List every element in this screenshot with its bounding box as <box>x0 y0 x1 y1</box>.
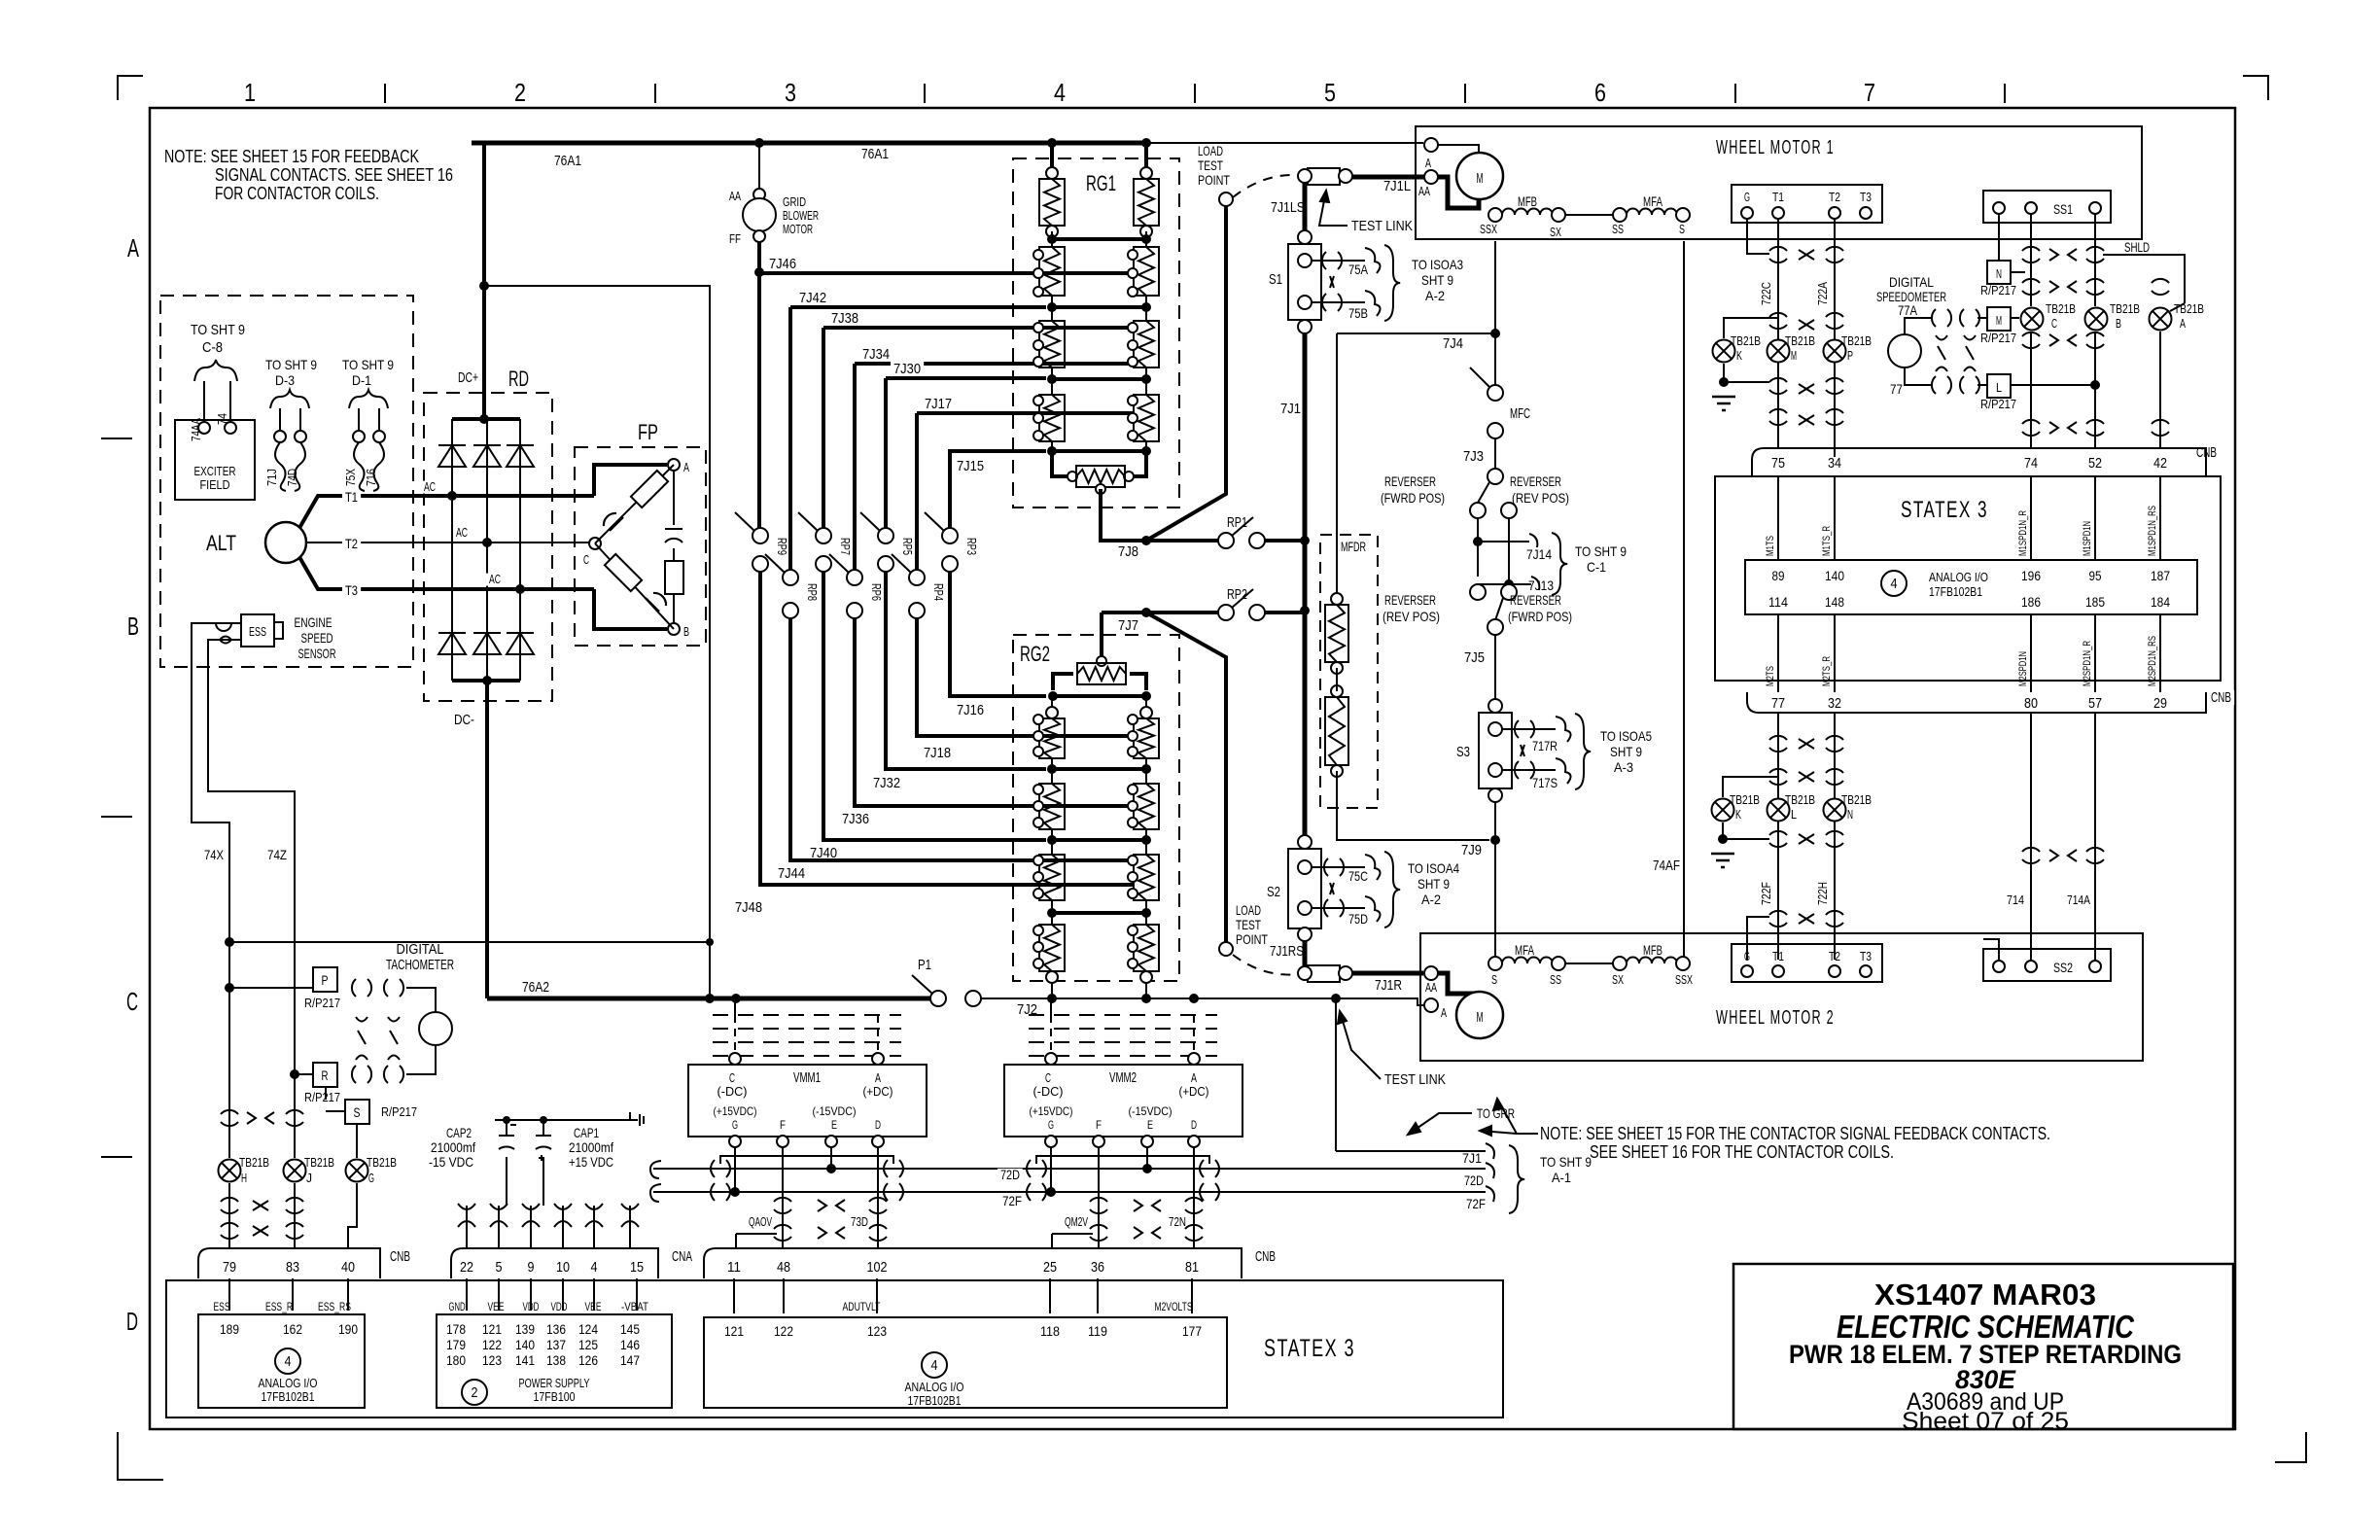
svg-text:A: A <box>2180 316 2186 331</box>
switch RP6 <box>847 570 862 585</box>
svg-text:M: M <box>1477 170 1484 187</box>
WM2 pin AA <box>1424 966 1438 980</box>
svg-text:C-1: C-1 <box>1587 559 1606 575</box>
column TB21B A wire <box>2159 332 2161 448</box>
svg-text:R/P217: R/P217 <box>1980 331 2016 345</box>
WM2 motor M <box>1456 992 1503 1038</box>
wire 7J5 <box>1494 635 1496 699</box>
svg-text:140: 140 <box>515 1337 535 1352</box>
svg-text:7J1: 7J1 <box>1462 1150 1482 1166</box>
svg-text:123: 123 <box>867 1323 887 1339</box>
svg-text:4: 4 <box>1891 576 1898 592</box>
coil MFB wm2 <box>1627 958 1677 963</box>
svg-text:D: D <box>126 1307 138 1336</box>
svg-text:TO SHT 9: TO SHT 9 <box>1540 1154 1592 1170</box>
svg-text:178: 178 <box>446 1321 466 1337</box>
curl 75A <box>1365 248 1381 273</box>
svg-text:75C: 75C <box>1348 868 1368 884</box>
svg-text:C: C <box>729 1070 735 1085</box>
wire AC T1 <box>335 494 594 498</box>
svg-text:52: 52 <box>2088 455 2102 472</box>
svg-text:7J1LS: 7J1LS <box>1271 199 1305 216</box>
svg-text:5: 5 <box>496 1259 503 1276</box>
svg-text:VMM1: VMM1 <box>793 1069 821 1086</box>
svg-text:4: 4 <box>1054 78 1066 107</box>
svg-text:7J4: 7J4 <box>1443 335 1463 352</box>
svg-text:T2: T2 <box>1829 949 1840 963</box>
svg-text:74AF: 74AF <box>1653 857 1680 874</box>
wire 716 <box>378 408 380 431</box>
svg-text:95: 95 <box>2089 568 2102 583</box>
lamp TB21B N wm2 <box>1824 799 1846 822</box>
svg-text:TB21B: TB21B <box>1785 792 1815 807</box>
svg-text:MFB: MFB <box>1643 942 1662 958</box>
WM1 terminal box <box>1732 185 1882 223</box>
svg-text:124: 124 <box>578 1321 598 1337</box>
svg-text:STATEX 3: STATEX 3 <box>1264 1335 1355 1362</box>
diode D5 <box>473 633 501 654</box>
svg-text:CNA: CNA <box>672 1248 692 1265</box>
svg-text:G: G <box>368 1171 374 1185</box>
svg-text:25: 25 <box>1043 1259 1057 1276</box>
svg-text:179: 179 <box>446 1337 466 1352</box>
svg-text:136: 136 <box>546 1321 566 1337</box>
svg-text:17FB102B1: 17FB102B1 <box>1929 584 1982 599</box>
svg-text:7J42: 7J42 <box>799 290 826 306</box>
WM1 motor M <box>1456 153 1503 199</box>
wire crossover to 76A2 <box>225 937 234 947</box>
resistor RG2-5 horizontal <box>1097 656 1106 666</box>
svg-text:A: A <box>1191 1070 1197 1085</box>
svg-text:ESS_R: ESS_R <box>265 1300 293 1313</box>
RG2 bottom pins <box>1046 971 1058 983</box>
svg-text:M: M <box>1791 348 1797 363</box>
WM1 pin A <box>1424 138 1438 152</box>
wire 7J17 <box>917 411 1134 415</box>
svg-text:139: 139 <box>515 1321 535 1337</box>
svg-text:72F: 72F <box>1466 1196 1486 1211</box>
svg-text:7J9: 7J9 <box>1461 842 1482 858</box>
svg-text:T1: T1 <box>345 489 358 505</box>
resistor RG1-2R <box>1134 247 1159 296</box>
FP cap CB <box>646 593 666 612</box>
FP right branch <box>673 471 675 525</box>
wire L to lamp B column <box>2011 384 2095 386</box>
svg-text:81: 81 <box>1185 1259 1199 1276</box>
svg-text:75A: 75A <box>1348 262 1369 277</box>
WM1 motor elbow <box>1438 177 1479 208</box>
wire 722A column <box>1834 219 1836 457</box>
wire ss2 left <box>1983 939 1999 961</box>
svg-text:WHEEL MOTOR 1: WHEEL MOTOR 1 <box>1716 137 1835 158</box>
svg-text:M: M <box>1477 1009 1484 1026</box>
svg-text:CNB: CNB <box>2196 444 2217 461</box>
VMM2 bottom pins <box>1045 1136 1057 1147</box>
tachometer dial <box>419 1012 452 1045</box>
svg-text:(FWRD POS): (FWRD POS) <box>1381 490 1445 506</box>
svg-text:NOTE: SEE SHEET 15 FOR FEEDBAC: NOTE: SEE SHEET 15 FOR FEEDBACK <box>164 147 419 166</box>
test link 2 <box>1308 965 1340 982</box>
resistor RG2-DR <box>1134 925 1159 971</box>
border frame <box>150 108 2235 1429</box>
load test point riser top <box>1146 206 1226 541</box>
wire 7J2 <box>981 997 1336 999</box>
svg-text:M2VOLTS: M2VOLTS <box>1155 1300 1193 1313</box>
svg-text:184: 184 <box>2151 594 2170 610</box>
column TB21B C wire <box>2030 214 2032 306</box>
exciter field EF <box>175 420 255 500</box>
wire 722C column <box>1777 219 1779 447</box>
svg-text:TEST: TEST <box>1198 157 1223 173</box>
lamp TB21B H <box>219 1160 241 1182</box>
resistor RG1-1L <box>1046 167 1058 179</box>
svg-text:TB21B: TB21B <box>1731 333 1761 348</box>
svg-text:SX: SX <box>1612 972 1624 987</box>
svg-text:AA: AA <box>1418 184 1430 198</box>
svg-text:MFA: MFA <box>1643 193 1662 209</box>
svg-text:QM2V: QM2V <box>1065 1214 1088 1229</box>
resistor MFDR-2 <box>1331 685 1343 697</box>
contacts after R <box>352 1066 356 1083</box>
svg-text:M2TS: M2TS <box>1765 666 1776 686</box>
svg-text:POINT: POINT <box>1236 931 1268 947</box>
diode D6 <box>507 633 534 654</box>
columns below right CNB <box>1777 713 1779 960</box>
FP resistor RC <box>665 561 683 594</box>
svg-text:TB21B: TB21B <box>1841 333 1872 348</box>
engine speed sensor ESS <box>241 614 274 647</box>
svg-text:AC: AC <box>489 572 501 586</box>
svg-text:RG1: RG1 <box>1086 171 1116 195</box>
svg-text:ESS_RS: ESS_RS <box>318 1300 351 1313</box>
wire 7J4 to MFDR <box>1336 333 1338 593</box>
svg-text:Sheet 07 of 25: Sheet 07 of 25 <box>1902 1408 2069 1435</box>
statex3 right box <box>1715 476 2221 681</box>
switch MFC <box>1487 385 1503 401</box>
svg-text:1: 1 <box>244 78 256 107</box>
svg-text:76A1: 76A1 <box>554 153 581 169</box>
svg-text:A: A <box>127 233 139 262</box>
wires CNB to analog io 2 <box>733 1278 735 1313</box>
svg-text:714A: 714A <box>2067 892 2090 907</box>
svg-text:140: 140 <box>1825 568 1844 583</box>
switch box S3 <box>1488 699 1502 713</box>
wire 74 <box>229 381 231 428</box>
svg-text:K: K <box>1735 807 1741 822</box>
svg-text:7J48: 7J48 <box>735 899 762 916</box>
svg-text:(REV POS): (REV POS) <box>1512 490 1569 506</box>
svg-text:RG2: RG2 <box>1020 642 1050 666</box>
resistor RG1-4L <box>1039 395 1065 441</box>
switch RP1 <box>1218 533 1234 548</box>
svg-text:A-1: A-1 <box>1552 1170 1571 1185</box>
resistor MFDR-1 <box>1331 593 1343 605</box>
svg-text:122: 122 <box>482 1337 502 1352</box>
svg-text:M2SPD1N_RS: M2SPD1N_RS <box>2147 636 2158 686</box>
svg-text:7J15: 7J15 <box>957 458 984 474</box>
connector CNB left <box>198 1248 380 1278</box>
WM2 field S <box>1488 957 1502 970</box>
svg-text:76A2: 76A2 <box>522 979 549 996</box>
svg-text:-VBAT: -VBAT <box>621 1300 649 1313</box>
svg-text:A: A <box>1441 1005 1447 1020</box>
switch P1 <box>930 991 946 1006</box>
svg-text:177: 177 <box>1182 1323 1202 1339</box>
svg-text:57: 57 <box>2088 695 2102 712</box>
wire DC- <box>485 681 489 998</box>
lamp TB21B G <box>346 1160 368 1182</box>
svg-text:RP6: RP6 <box>869 583 884 601</box>
svg-text:A: A <box>683 460 689 474</box>
svg-text:SS1: SS1 <box>2053 201 2073 217</box>
curl 717R <box>1556 717 1571 742</box>
switch RP3 <box>942 528 958 543</box>
terminal M <box>1987 307 2011 331</box>
svg-text:121: 121 <box>724 1323 744 1339</box>
wire 7J3 <box>1494 438 1496 470</box>
svg-text:(+15VDC): (+15VDC) <box>1030 1104 1073 1118</box>
svg-text:FF: FF <box>729 231 741 246</box>
svg-text:72N: 72N <box>1169 1214 1186 1229</box>
svg-text:TEST: TEST <box>1236 917 1261 932</box>
contacts after P <box>352 979 356 997</box>
svg-text:S1: S1 <box>1269 271 1282 288</box>
svg-text:FOR CONTACTOR COILS.: FOR CONTACTOR COILS. <box>215 184 379 203</box>
diode D2 <box>473 445 501 467</box>
svg-text:LOAD: LOAD <box>1236 902 1261 918</box>
svg-text:M1SPD1N_RS: M1SPD1N_RS <box>2147 506 2158 556</box>
svg-text:123: 123 <box>482 1352 502 1368</box>
svg-text:RP1: RP1 <box>1227 514 1247 531</box>
SS2 box <box>1983 949 2111 981</box>
wire 75X <box>358 408 360 431</box>
wire 7J42 <box>790 305 1046 309</box>
svg-text:SIGNAL CONTACTS. SEE SHEET 16: SIGNAL CONTACTS. SEE SHEET 16 <box>215 165 453 185</box>
svg-text:7: 7 <box>1864 78 1875 107</box>
lamp TB21B K wm1 <box>1724 318 1778 338</box>
dashed box engine sensor group <box>160 296 413 667</box>
svg-text:P: P <box>1847 348 1853 363</box>
svg-text:137: 137 <box>546 1337 566 1352</box>
svg-text:RP9: RP9 <box>775 538 789 555</box>
brace to isoa3 <box>1384 245 1400 321</box>
RG1 column wires <box>1050 143 1054 173</box>
lamp TB21B P <box>1824 340 1846 363</box>
svg-text:SHT 9: SHT 9 <box>1417 876 1450 892</box>
svg-text:P: P <box>322 972 329 988</box>
svg-text:7J18: 7J18 <box>924 745 951 761</box>
VMM1 pin wires <box>734 1147 736 1192</box>
rail end hooks <box>1486 1143 1494 1202</box>
terminal R <box>313 1063 337 1087</box>
svg-text:R: R <box>322 1067 329 1083</box>
curl 75D <box>1365 896 1381 922</box>
wire to 76A2 riser <box>484 286 710 998</box>
note leader arrows <box>1497 1099 1538 1134</box>
svg-text:722C: 722C <box>1759 282 1773 305</box>
svg-text:REVERSER: REVERSER <box>1510 592 1561 608</box>
wire 7J38 <box>823 326 1134 330</box>
svg-text:D: D <box>1191 1118 1197 1132</box>
rectifier diode columns <box>451 419 453 681</box>
svg-text:+15 VDC: +15 VDC <box>569 1154 613 1170</box>
svg-text:F: F <box>780 1118 786 1132</box>
svg-text:4: 4 <box>931 1357 938 1374</box>
svg-text:MFDR: MFDR <box>1341 539 1366 554</box>
svg-text:D-3: D-3 <box>275 372 295 388</box>
connector CNB bottom center <box>704 1248 1242 1278</box>
svg-text:GRID: GRID <box>783 194 806 209</box>
svg-text:S: S <box>354 1104 361 1120</box>
resistor RG2-CR <box>1134 855 1159 900</box>
svg-text:SENSOR: SENSOR <box>298 646 336 661</box>
wire 7J32 <box>886 572 1046 769</box>
svg-text:T3: T3 <box>1860 949 1872 963</box>
brace d-3 <box>270 390 309 408</box>
wire 7J1R <box>1352 971 1423 976</box>
svg-text:TO ISOA3: TO ISOA3 <box>1412 257 1463 272</box>
lamp TB21B J <box>284 1160 306 1182</box>
wires caps to CNA contacts <box>506 1157 507 1206</box>
svg-text:TACHOMETER: TACHOMETER <box>386 957 454 973</box>
svg-text:29: 29 <box>2153 695 2167 712</box>
wheel motor 2 box <box>1420 933 2143 1061</box>
VMM1 bottom pins <box>729 1136 741 1147</box>
svg-text:GND: GND <box>449 1300 466 1313</box>
svg-text:83: 83 <box>286 1259 299 1276</box>
svg-text:7J46: 7J46 <box>769 256 796 272</box>
svg-text:121: 121 <box>482 1321 502 1337</box>
svg-text:MFA: MFA <box>1515 942 1534 958</box>
statex pins bottom <box>1777 614 1779 692</box>
svg-text:BLOWER: BLOWER <box>783 208 819 223</box>
svg-text:48: 48 <box>777 1259 790 1276</box>
svg-text:CNB: CNB <box>2211 689 2231 706</box>
svg-text:74X: 74X <box>204 847 225 862</box>
svg-text:L: L <box>1791 807 1797 822</box>
wire 74AA <box>203 381 205 428</box>
svg-text:STATEX 3: STATEX 3 <box>1901 497 1988 523</box>
wire to 72 rails <box>1335 998 1337 1151</box>
svg-text:M1SPD1N: M1SPD1N <box>2082 521 2093 556</box>
svg-text:SS: SS <box>1550 972 1561 987</box>
switch RP5 <box>878 528 893 543</box>
dashed bus above VMM1 <box>713 1014 901 1016</box>
svg-text:RP5: RP5 <box>900 538 915 555</box>
svg-text:M2TS_R: M2TS_R <box>1821 656 1833 686</box>
svg-text:T2: T2 <box>345 536 358 551</box>
ground wm1 lamps <box>1723 364 1725 382</box>
wires CNA to power supply <box>466 1278 468 1311</box>
svg-text:7J1L: 7J1L <box>1383 178 1411 194</box>
RG2 junction bar B <box>1051 829 1053 855</box>
svg-text:126: 126 <box>578 1352 598 1368</box>
VMM1 feeds <box>734 1015 736 1054</box>
svg-text:148: 148 <box>1825 594 1844 610</box>
svg-text:AC: AC <box>456 525 468 540</box>
WM1 pin AA <box>1424 170 1438 184</box>
svg-text:VEE: VEE <box>488 1300 505 1313</box>
terminal N <box>1987 261 2011 284</box>
svg-text:7J3: 7J3 <box>1463 448 1484 465</box>
svg-text:P1: P1 <box>918 957 931 973</box>
svg-text:SEE SHEET 16 FOR THE CONTACTOR: SEE SHEET 16 FOR THE CONTACTOR COILS. <box>1590 1142 1894 1162</box>
lamp TB21B K wm2 <box>1723 777 1778 797</box>
wire G stub wm1 <box>1747 219 1769 254</box>
svg-text:H: H <box>241 1171 247 1185</box>
wire 72D rail <box>650 1161 661 1178</box>
svg-text:ALT: ALT <box>206 531 236 555</box>
svg-text:21000mf: 21000mf <box>569 1139 613 1155</box>
curl 75B <box>1365 291 1381 316</box>
wire +15 bus <box>495 1119 630 1121</box>
svg-text:147: 147 <box>620 1352 640 1368</box>
lamp TB21B B <box>2085 308 2108 331</box>
SS1 box <box>1983 191 2111 223</box>
svg-text:ANALOG I/O: ANALOG I/O <box>259 1376 318 1390</box>
wire 7J4 <box>1494 241 1496 387</box>
svg-text:7J1R: 7J1R <box>1375 977 1402 994</box>
wire 76A2 <box>487 997 930 1001</box>
svg-text:SHT 9: SHT 9 <box>1421 272 1453 288</box>
svg-text:17FB102B1: 17FB102B1 <box>908 1393 962 1408</box>
wire 7J1L to AA <box>1352 175 1424 180</box>
svg-text:D: D <box>875 1118 881 1132</box>
svg-text:REVERSER: REVERSER <box>1384 592 1436 608</box>
analog io card 2 <box>704 1317 1227 1408</box>
contacts above CNA <box>466 1206 468 1248</box>
wire 74AF <box>1683 241 1685 957</box>
resistor RG1-2L <box>1039 247 1065 296</box>
svg-text:M2SPD1N_R: M2SPD1N_R <box>2082 641 2093 686</box>
svg-text:AC: AC <box>424 479 436 494</box>
wire AC T2 <box>345 542 595 543</box>
svg-text:717R: 717R <box>1532 738 1557 753</box>
svg-text:AA: AA <box>1425 980 1437 995</box>
resistor RG2-BR <box>1134 784 1159 829</box>
svg-text:ADUTVLT: ADUTVLT <box>843 1300 881 1313</box>
svg-text:J: J <box>306 1171 312 1185</box>
svg-text:E: E <box>831 1118 837 1132</box>
svg-text:74D: 74D <box>285 469 299 486</box>
svg-text:17FB102B1: 17FB102B1 <box>262 1389 315 1404</box>
svg-text:15: 15 <box>630 1259 644 1276</box>
svg-text:DC+: DC+ <box>458 369 478 386</box>
svg-text:(+DC): (+DC) <box>863 1084 893 1099</box>
wire bus to wheel motor 1 A <box>1146 142 1423 144</box>
svg-text:SS2: SS2 <box>2053 960 2073 975</box>
svg-text:M1TS: M1TS <box>1765 536 1776 556</box>
svg-text:LOAD: LOAD <box>1198 143 1223 158</box>
svg-text:76A1: 76A1 <box>861 146 889 162</box>
svg-text:C: C <box>1045 1070 1051 1085</box>
svg-text:34: 34 <box>1828 455 1841 472</box>
svg-text:TO ISOA4: TO ISOA4 <box>1408 860 1459 876</box>
svg-text:G: G <box>1048 1118 1054 1132</box>
FP pin C <box>589 538 601 549</box>
svg-text:180: 180 <box>446 1352 466 1368</box>
switch RP7 <box>816 528 831 543</box>
svg-text:TB21B: TB21B <box>367 1155 397 1170</box>
svg-text:L: L <box>1996 380 2002 395</box>
svg-text:189: 189 <box>220 1321 239 1337</box>
svg-text:-15 VDC: -15 VDC <box>429 1154 473 1170</box>
svg-text:10: 10 <box>556 1259 570 1276</box>
wires CNB to analog io <box>228 1278 230 1311</box>
svg-text:S: S <box>1491 972 1497 987</box>
columns 714 714A <box>2080 713 2082 875</box>
svg-text:TB21B: TB21B <box>2174 301 2204 316</box>
